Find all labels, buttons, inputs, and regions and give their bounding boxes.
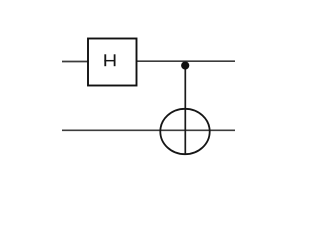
wire q0 left segment [62,61,88,63]
wire q0 right segment [137,60,236,62]
CNOT target circle [160,109,209,154]
wire CNOT vertical [184,64,186,154]
CNOT control dot [181,61,189,69]
gate H box [88,39,137,86]
gate H label [104,54,115,66]
wire q1 [62,129,235,131]
